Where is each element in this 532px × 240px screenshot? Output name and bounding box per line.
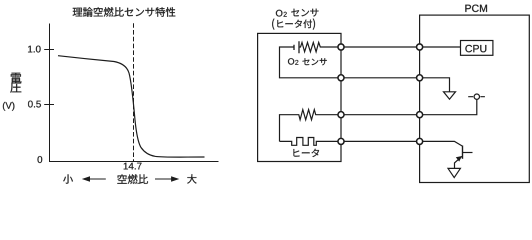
transistor Q1 emitter arrow <box>456 156 462 162</box>
wire row3 heater power <box>341 114 420 116</box>
node sensor signal <box>338 44 344 50</box>
PCM label <box>465 5 487 12</box>
wire row4 heater control <box>341 140 420 142</box>
inner label subscript 2 <box>295 60 298 65</box>
y-axis label 電 <box>11 73 22 84</box>
heater element H1 square wave <box>280 138 342 146</box>
node heater return <box>338 138 344 144</box>
wire row1 sensor signal <box>341 46 420 48</box>
heater-equipped label ヒータ付 <box>277 20 312 29</box>
x-axis label 小 (small) <box>63 174 73 183</box>
internal resistor R1 zigzag <box>299 42 341 51</box>
heater resistor R2 wire+zigzag <box>280 110 342 142</box>
x-axis label 空燃比 (air-fuel ratio) <box>117 174 148 184</box>
node sensor return <box>338 75 344 81</box>
y-axis label 圧 <box>10 83 21 93</box>
x-axis (air-fuel ratio) <box>50 161 219 163</box>
left arrow <box>82 176 106 181</box>
ground G1 <box>444 92 456 99</box>
y label 0 <box>38 156 43 163</box>
transistor Q1 emitter <box>455 156 462 168</box>
wire row2 sensor return <box>341 77 420 79</box>
inner label センサ <box>303 58 327 65</box>
x-axis label 大 (large) <box>187 174 196 183</box>
inner label O <box>288 58 294 64</box>
O2 sensor top label センサ <box>291 9 318 17</box>
CPU box <box>461 41 493 56</box>
sensing cell wire left <box>280 47 342 78</box>
dashed stoichiometric line at 14.7 <box>133 23 135 161</box>
CPU label <box>465 45 486 52</box>
node PCM pin2 <box>417 75 423 81</box>
y label 0.5 <box>28 101 41 108</box>
node heater supply <box>338 112 344 118</box>
heater label ヒータ <box>293 149 319 157</box>
terminal T1 circle <box>474 94 479 99</box>
y-axis unit (V) <box>3 102 15 111</box>
tick 1.0 <box>45 49 54 51</box>
heater-equipped label ) <box>313 19 315 30</box>
transistor Q1 base lead <box>463 152 473 154</box>
graph title 理論空燃比センサ特性 <box>73 7 176 17</box>
right arrow <box>155 176 179 181</box>
terminal T1 bar <box>468 96 485 98</box>
wire row1 to CPU <box>420 46 461 48</box>
node PCM pin4 <box>417 138 423 144</box>
node PCM pin1 <box>417 44 423 50</box>
tick 0.5 <box>45 104 54 106</box>
PCM box <box>420 15 530 182</box>
O2 sensor outer box <box>258 33 341 161</box>
heater-equipped label ( <box>272 19 274 30</box>
y label 1.0 <box>28 46 40 53</box>
wire row4 to transistor <box>420 141 463 146</box>
O2 sensor top label O <box>276 10 283 17</box>
ground G2 <box>448 168 460 177</box>
O2 sensor top label subscript 2 <box>284 12 287 17</box>
sensing cell plates (EMF) <box>294 41 299 53</box>
wire row2 to ground <box>420 78 450 92</box>
sensor output curve <box>58 56 205 157</box>
y-axis (voltage) <box>49 24 51 162</box>
node PCM pin3 <box>417 112 423 118</box>
x label 14.7 <box>124 163 142 170</box>
wire row3 to terminal <box>420 100 477 115</box>
transistor Q1 base bar <box>462 146 464 159</box>
